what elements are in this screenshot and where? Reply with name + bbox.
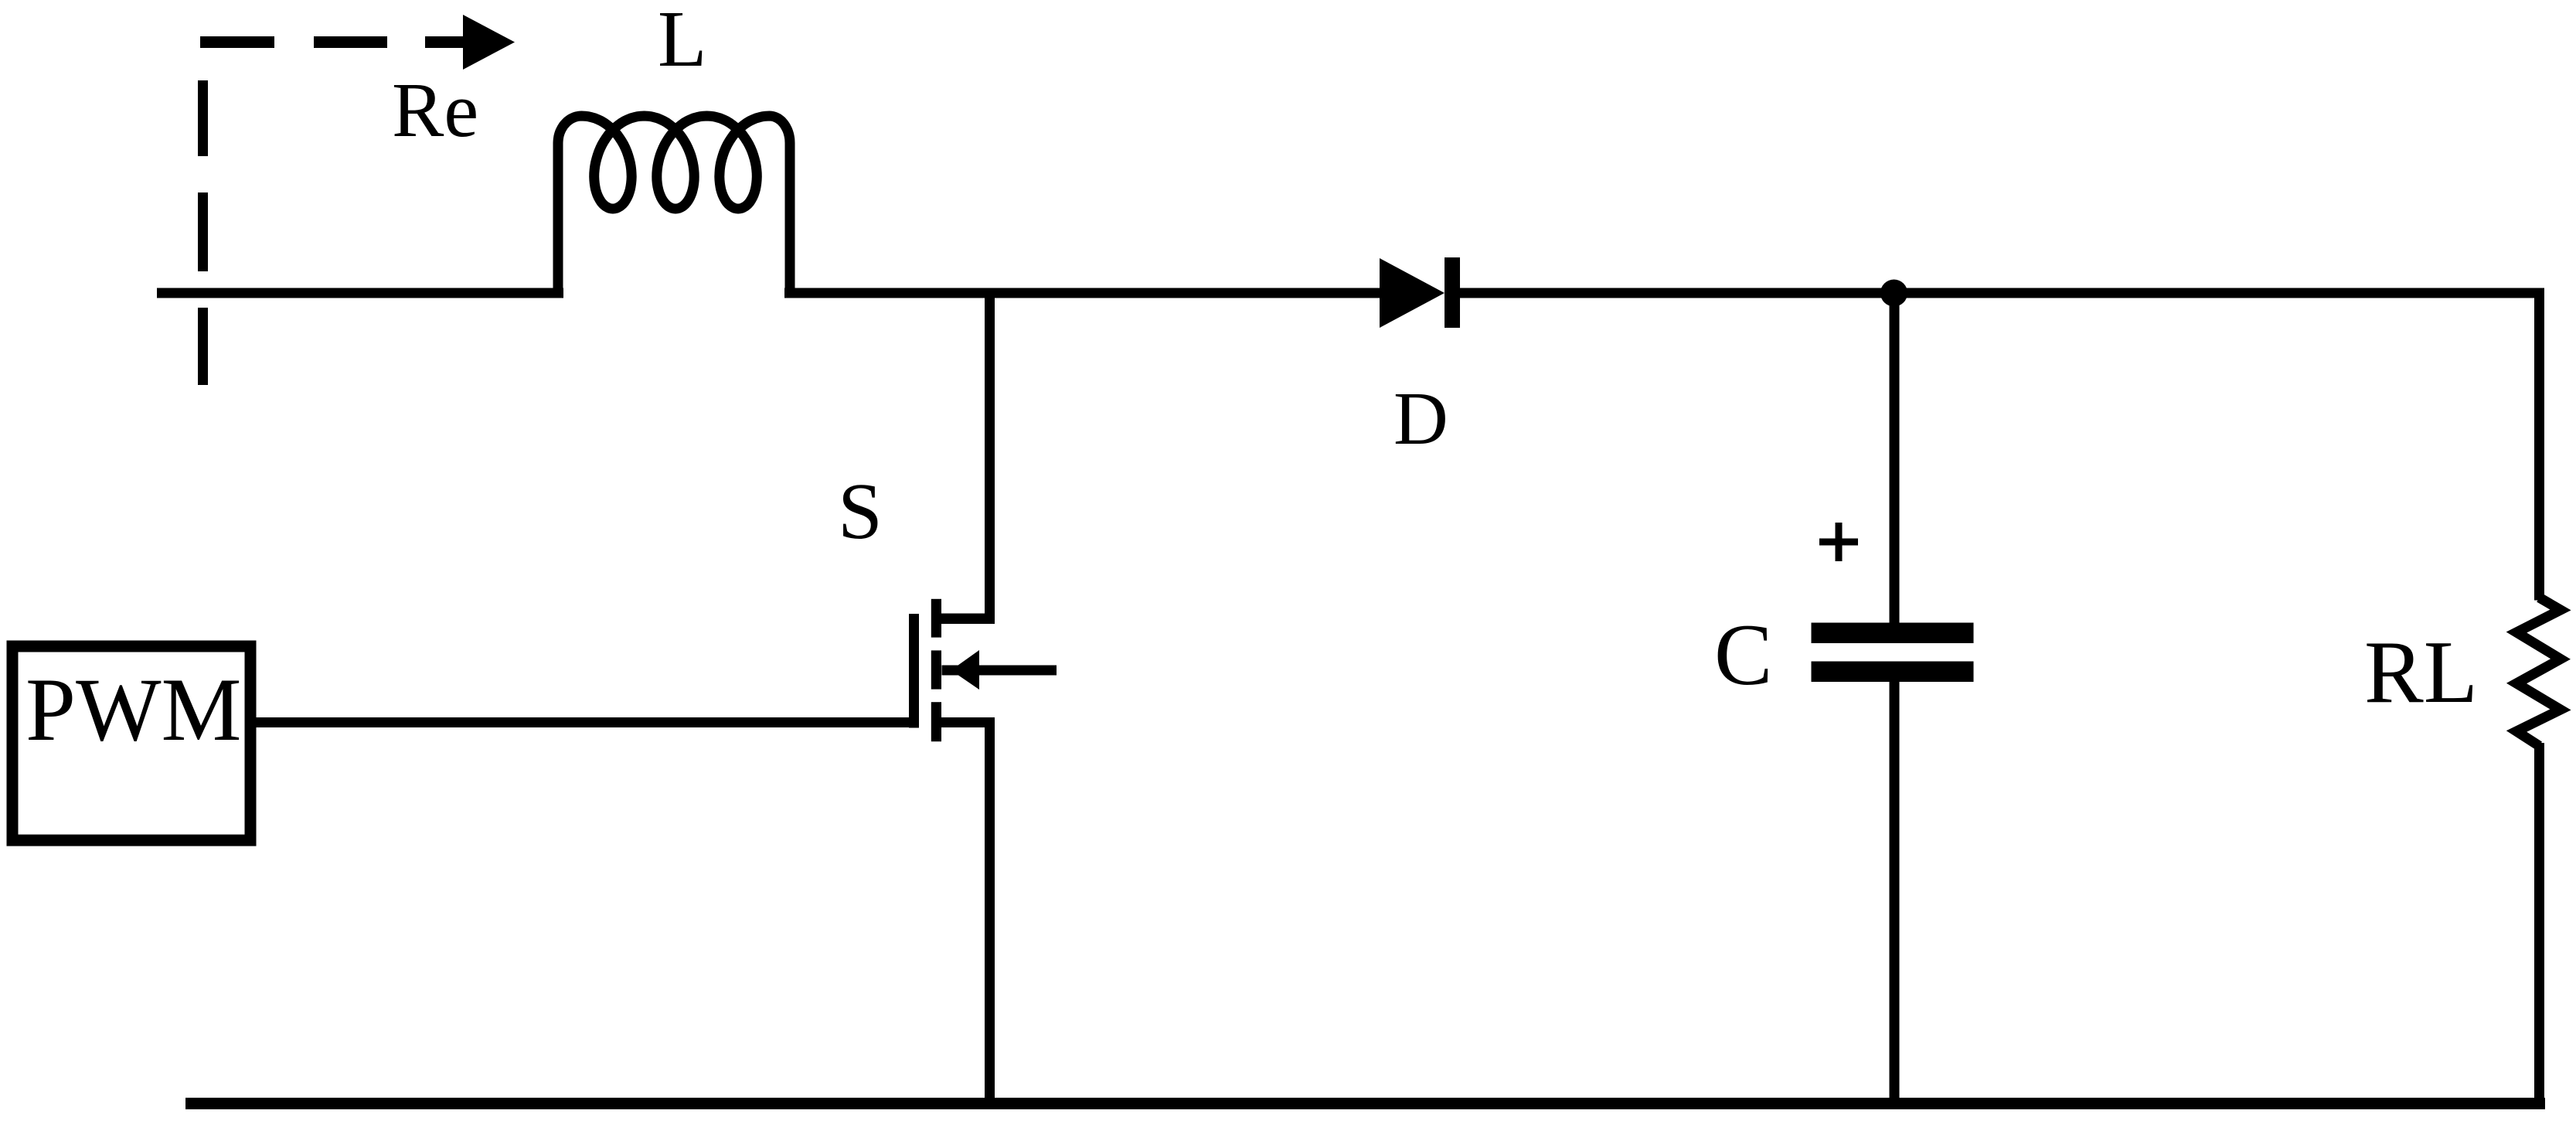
svg-text:D: D bbox=[1393, 377, 1448, 461]
svg-text:S: S bbox=[838, 467, 883, 556]
svg-text:L: L bbox=[658, 0, 707, 83]
svg-text:RL: RL bbox=[2364, 623, 2478, 721]
svg-text:PWM: PWM bbox=[26, 660, 242, 760]
svg-text:Re: Re bbox=[392, 66, 478, 153]
svg-text:C: C bbox=[1714, 607, 1772, 703]
